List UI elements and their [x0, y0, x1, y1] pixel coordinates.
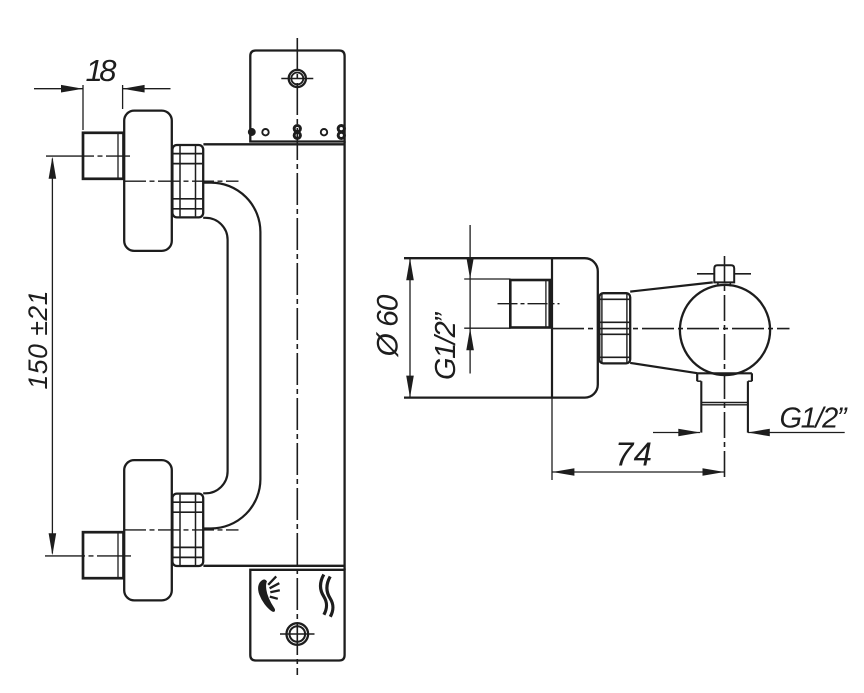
dimension 150 extension line bottom [45, 555, 131, 557]
svg-text:G1/2”: G1/2” [430, 312, 462, 380]
spray icon [259, 580, 275, 611]
side port centerline [498, 303, 560, 305]
dimension 18 line and arrows [34, 88, 83, 90]
bottom mounting plate [250, 570, 344, 661]
svg-text:18: 18 [86, 53, 118, 88]
pipe bend outer edge [203, 183, 260, 529]
svg-text:Ø 60: Ø 60 [372, 294, 405, 357]
body right edge front view [343, 142, 345, 570]
bottom escutcheon [124, 460, 172, 600]
top inlet centerline [46, 155, 130, 157]
dimension 150 line and arrows [51, 159, 53, 554]
dimension 18 extension lines [82, 85, 84, 130]
wave icon [320, 575, 326, 615]
knob top button [714, 265, 734, 282]
svg-text:G1/2”: G1/2” [780, 403, 848, 435]
diameter 60 dimension line [409, 258, 411, 397]
valve body cone bottom edge [630, 363, 697, 373]
knob vertical centerline [724, 256, 726, 480]
arm bottom edge [203, 565, 344, 567]
bottom inlet threaded end G1/2 [83, 532, 124, 578]
side view main centerline [552, 328, 790, 330]
G1/2 right dimension line [653, 432, 700, 434]
top nut centerline [124, 180, 239, 182]
centerline vertical axis front view [296, 38, 298, 675]
valve body cone top edge [630, 282, 713, 291]
side view body outline [404, 258, 598, 397]
top mounting plate [250, 51, 344, 142]
outlet threaded end [700, 381, 702, 432]
svg-text:74: 74 [615, 436, 652, 473]
bottom union nut [172, 494, 203, 566]
arm top edge [203, 143, 344, 145]
top escutcheon [124, 111, 172, 251]
side view union nut [599, 293, 630, 363]
side view wall plate divider [551, 258, 553, 397]
dimension 74 line and arrows [552, 471, 724, 473]
screw bottom [287, 623, 309, 645]
pipe bend inner edge [203, 218, 227, 494]
hole row on top plate [249, 126, 345, 139]
top inlet threaded end G1/2 [83, 133, 124, 179]
top union nut [172, 145, 203, 217]
thermostat knob circle [680, 285, 770, 375]
outlet collar [697, 372, 752, 374]
svg-text:150 ±21: 150 ±21 [23, 291, 53, 390]
G1/2 left dimension line [469, 225, 471, 374]
screw top [289, 70, 306, 87]
side view inlet port square [510, 280, 549, 328]
bottom nut centerline [124, 529, 239, 531]
dimension 74 extension line [551, 398, 553, 480]
